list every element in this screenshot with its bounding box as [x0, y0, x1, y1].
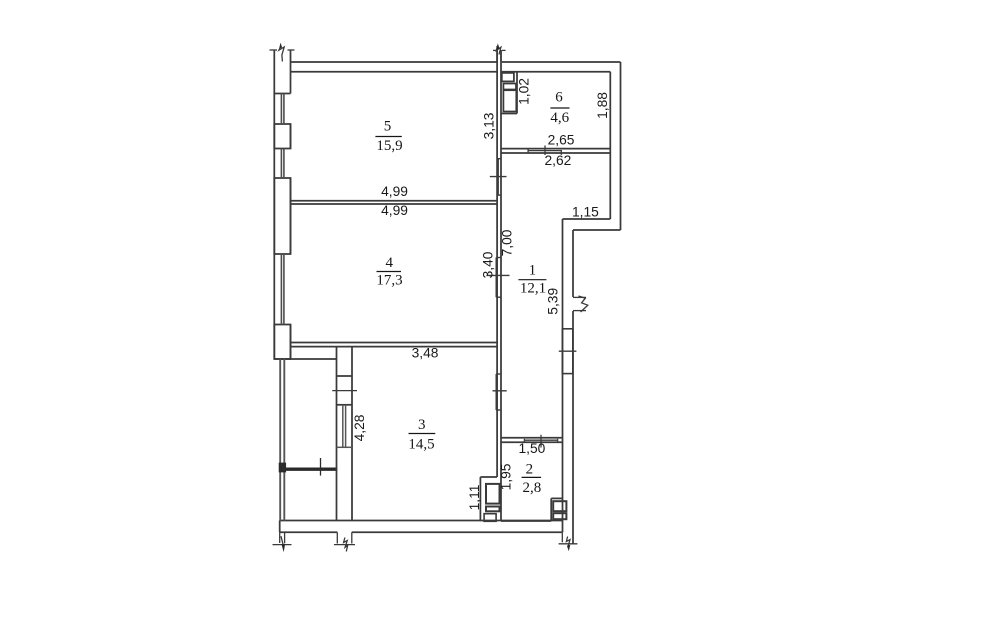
texts	[375, 89, 569, 496]
svg-text:2,8: 2,8	[523, 480, 542, 496]
window glazing room5 lower	[281, 149, 284, 179]
svg-text:1,95: 1,95	[498, 463, 513, 490]
svg-text:4: 4	[385, 255, 393, 271]
svg-text:5,39: 5,39	[545, 288, 560, 315]
door room3 jamb	[493, 374, 507, 410]
svg-text:3: 3	[418, 417, 426, 433]
break symbol bottom-mid	[334, 532, 355, 551]
room6 door marks	[528, 146, 561, 156]
pier box top-left	[274, 93, 290, 95]
loggia window glazing	[337, 405, 353, 448]
svg-text:7,00: 7,00	[499, 229, 514, 256]
svg-text:3,48: 3,48	[412, 346, 439, 361]
room2 niche box lower	[553, 513, 566, 519]
svg-text:4,99: 4,99	[381, 203, 408, 218]
top wall outer line	[291, 61, 497, 63]
right wall lower outer seg1	[572, 230, 574, 297]
room2 SE niche	[551, 497, 562, 499]
room2 door marks	[524, 435, 557, 448]
pier box room4 bottom	[274, 325, 290, 360]
svg-text:5: 5	[384, 119, 392, 135]
door room4 jamb	[486, 258, 509, 298]
svg-text:4,28: 4,28	[352, 414, 367, 441]
top wall inner line room6	[501, 71, 610, 73]
wall between rooms 4 and 3	[291, 342, 498, 344]
svg-text:2,62: 2,62	[544, 153, 571, 168]
bottom wall outer line right	[352, 531, 563, 533]
bottom wall inner line	[280, 520, 562, 522]
svg-text:17,3: 17,3	[376, 273, 402, 289]
svg-text:1,11: 1,11	[467, 485, 482, 511]
loggia top wall	[274, 358, 336, 360]
right wall upper outer	[620, 62, 622, 230]
pier box rooms5/4	[274, 178, 290, 254]
niche box small	[486, 507, 500, 512]
niche box tall	[486, 484, 500, 504]
svg-text:4,6: 4,6	[550, 110, 569, 126]
loggia front glazing	[280, 359, 284, 521]
svg-text:4,99: 4,99	[381, 184, 408, 199]
left wall inner segments	[290, 50, 292, 94]
main vertical wall right line	[500, 50, 502, 521]
loggia divider dark partition	[280, 458, 338, 476]
shaft right wall room6	[516, 72, 518, 114]
window glazing room5 upper	[281, 94, 284, 125]
break symbol bottom-left	[273, 532, 292, 552]
notch inner line	[563, 218, 611, 220]
room3 left wall inner segments	[351, 347, 353, 521]
notch outer line	[573, 229, 621, 231]
svg-text:1: 1	[529, 263, 537, 279]
svg-text:14,5: 14,5	[408, 437, 434, 453]
right wall lower inner	[562, 219, 564, 532]
corridor right window tick	[559, 350, 577, 352]
shaft bottom cap	[501, 113, 517, 115]
svg-text:3,13: 3,13	[482, 112, 497, 139]
svg-text:2: 2	[526, 462, 534, 478]
door room5 jamb	[490, 159, 507, 196]
room3 niche step	[480, 476, 497, 478]
wall between rooms 5 and 4	[291, 200, 498, 202]
svg-text:1,88: 1,88	[595, 92, 610, 119]
loggia door box	[337, 375, 353, 377]
corridor bottom wall / room2 top	[501, 437, 562, 439]
svg-text:2,65: 2,65	[548, 133, 575, 148]
shaft box 2	[503, 84, 516, 90]
top wall inner line room5	[291, 71, 498, 73]
break symbol top-mid	[493, 43, 506, 62]
svg-text:1,02: 1,02	[516, 78, 531, 105]
window glazing room4	[281, 254, 284, 325]
room3 left wall outer line	[336, 347, 338, 521]
right wall lower outer seg2	[572, 311, 574, 544]
room2 niche box upper	[553, 501, 566, 511]
right wall upper inner	[609, 72, 611, 219]
main vertical wall left line	[496, 50, 498, 477]
svg-text:1,50: 1,50	[518, 441, 545, 456]
svg-text:15,9: 15,9	[376, 138, 402, 154]
shaft box 1	[502, 73, 514, 82]
pier box mid room5	[274, 124, 290, 149]
corridor right window box	[562, 329, 572, 374]
shaft box 3	[503, 90, 516, 111]
svg-text:12,1: 12,1	[520, 281, 546, 297]
bottom wall outer line left	[280, 531, 338, 533]
room2 bottom inner	[501, 520, 551, 522]
svg-text:6: 6	[555, 89, 563, 105]
svg-text:1,15: 1,15	[572, 205, 599, 220]
room6 bottom wall	[501, 148, 610, 150]
break symbol right-mid	[573, 296, 588, 312]
break symbol bottom-right	[559, 532, 578, 551]
break symbol top-left	[270, 43, 295, 62]
svg-text:3,40: 3,40	[481, 251, 496, 278]
left wall outer line	[273, 50, 275, 359]
niche box lower-left	[484, 514, 496, 522]
